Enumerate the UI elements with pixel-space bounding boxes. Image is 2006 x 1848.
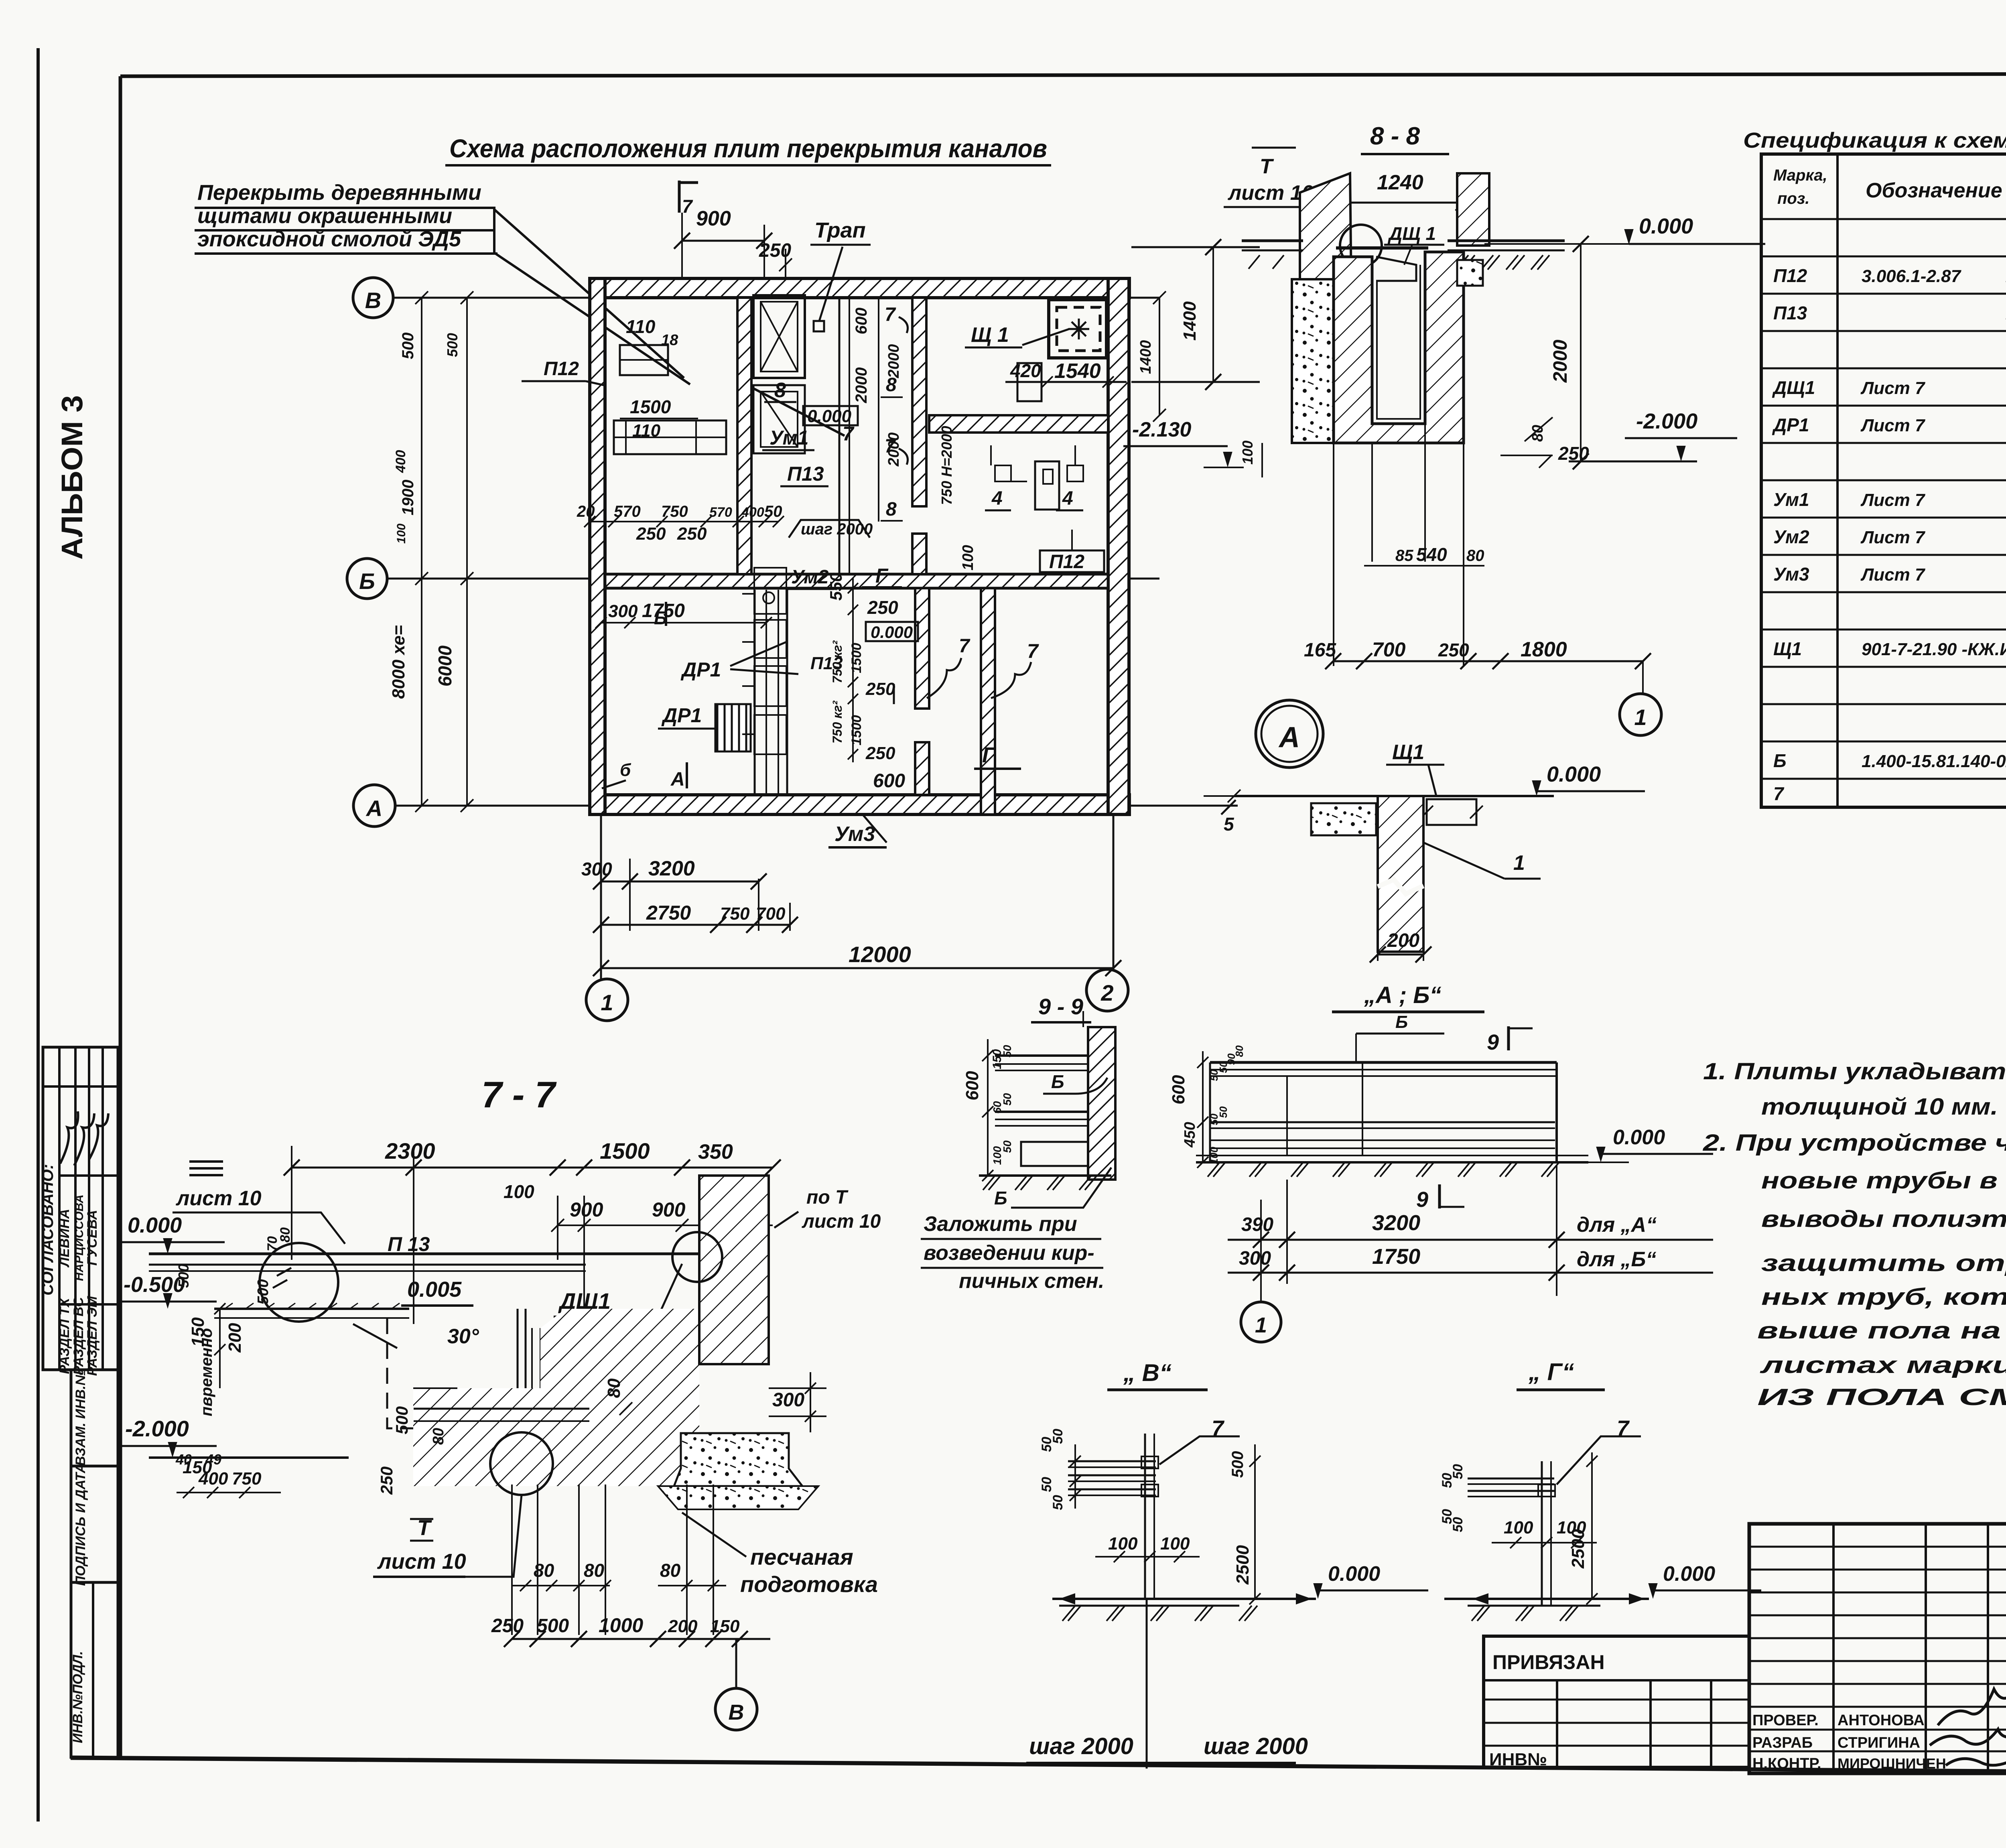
- section 7-7 axis B circle: [735, 1639, 737, 1688]
- svg-text:б: б: [620, 760, 631, 780]
- svg-text:СОГЛАСОВАНО:: СОГЛАСОВАНО:: [39, 1164, 57, 1296]
- svg-text:РАЗРАБ: РАЗРАБ: [1752, 1734, 1813, 1751]
- plan grating ДР1: [715, 704, 751, 751]
- spec table grid: [1761, 154, 2006, 807]
- svg-text:8: 8: [774, 379, 786, 402]
- svg-text:для „Б“: для „Б“: [1577, 1248, 1656, 1271]
- section 8-8 concrete column: [1292, 279, 1334, 443]
- svg-text:80: 80: [1466, 547, 1484, 565]
- axis Б circle: [347, 558, 387, 599]
- svg-text:9: 9: [1416, 1188, 1428, 1212]
- svg-text:А: А: [365, 796, 382, 821]
- sidebar box ПОДПИСЬ И ДАТА: [71, 1466, 118, 1582]
- detail 9-9 wall: [1088, 1027, 1115, 1180]
- svg-text:7: 7: [885, 304, 896, 325]
- svg-text:Б: Б: [1051, 1071, 1064, 1092]
- svg-text:40: 40: [175, 1451, 192, 1468]
- svg-text:РАЗДЕЛ ВС: РАЗДЕЛ ВС: [71, 1297, 86, 1375]
- svg-text:7 - 7: 7 - 7: [481, 1074, 557, 1115]
- svg-text:750: 750: [720, 904, 750, 924]
- svg-text:400: 400: [741, 505, 764, 520]
- svg-text:шаг 2000: шаг 2000: [1029, 1733, 1133, 1759]
- svg-text:12000: 12000: [849, 942, 911, 967]
- svg-text:150: 150: [710, 1616, 740, 1636]
- svg-text:250: 250: [865, 679, 895, 699]
- svg-text:2500: 2500: [1233, 1545, 1253, 1585]
- svg-text:Лист 7: Лист 7: [1860, 565, 1926, 585]
- detail AB ground: [1196, 1161, 1588, 1164]
- plan inner wall 3: [915, 588, 929, 709]
- svg-text:Б: Б: [994, 1188, 1007, 1208]
- svg-text:для „А“: для „А“: [1577, 1213, 1657, 1237]
- plan inner wall 1: [737, 298, 751, 574]
- plan left wall: [590, 278, 605, 814]
- svg-text:50: 50: [764, 503, 782, 520]
- axis А circle: [353, 785, 395, 827]
- plan top wall: [590, 278, 1129, 298]
- svg-text:1240: 1240: [1377, 171, 1423, 194]
- section 7-7 slab P13: [149, 1253, 715, 1255]
- svg-text:500: 500: [1229, 1451, 1247, 1478]
- section 8-8 left dim 1400: [1131, 246, 1260, 248]
- detail 9-9 slab mid: [995, 1111, 1088, 1113]
- svg-text:8000 хе=: 8000 хе=: [389, 625, 408, 699]
- section 8-8 axis 1 circle: [1620, 694, 1661, 735]
- svg-text:щитами окрашенными: щитами окрашенными: [197, 204, 452, 228]
- svg-text:Перекрыть деревянными: Перекрыть деревянными: [197, 181, 481, 205]
- section 8-8 panel on channel: [1336, 246, 1428, 250]
- svg-text:7: 7: [1773, 783, 1785, 804]
- svg-text:1: 1: [1513, 851, 1525, 875]
- svg-text:2500: 2500: [1568, 1529, 1588, 1569]
- svg-text:Б: Б: [1395, 1012, 1408, 1032]
- svg-text:1: 1: [601, 990, 613, 1015]
- svg-text:700: 700: [756, 904, 786, 924]
- axis 1 line: [600, 814, 602, 979]
- svg-text:100: 100: [1160, 1534, 1190, 1554]
- svg-text:Обозначение: Обозначение: [1866, 179, 2002, 202]
- detail AB slab mid: [1210, 1121, 1555, 1123]
- svg-text:750 Н=2000: 750 Н=2000: [938, 426, 955, 505]
- svg-text:500: 500: [537, 1615, 569, 1637]
- plan label shag2000: [789, 520, 870, 538]
- detail G ground: [1444, 1598, 1649, 1600]
- svg-text:новые трубы в подготовке пола: новые трубы в подготовке пола низ на отм…: [1761, 1168, 2006, 1194]
- plan right room fixtures: [1017, 363, 1042, 401]
- svg-text:ДЩ 1: ДЩ 1: [1387, 223, 1436, 244]
- section 8-8 right pier: [1457, 173, 1489, 246]
- svg-text:П12: П12: [1773, 265, 1807, 286]
- section 8-8 floor slab left: [1242, 240, 1303, 242]
- section 8-8 right pier base: [1457, 260, 1483, 286]
- svg-text:80: 80: [430, 1428, 447, 1445]
- svg-text:В: В: [365, 288, 381, 313]
- svg-text:защитить отрезками тонкостенны: защитить отрезками тонкостенных сталь-: [1761, 1250, 2006, 1276]
- svg-text:Г: Г: [982, 743, 997, 767]
- svg-text:250: 250: [1438, 640, 1469, 660]
- svg-text:50: 50: [1450, 1517, 1466, 1532]
- svg-text:80: 80: [604, 1378, 624, 1398]
- svg-text:500: 500: [444, 333, 461, 357]
- svg-text:100: 100: [1239, 441, 1256, 465]
- svg-text:2: 2: [1100, 980, 1113, 1005]
- section 7-7 sand prep wedge: [658, 1486, 818, 1509]
- detail AB ext lines: [1260, 1200, 1262, 1302]
- svg-text:1: 1: [1255, 1313, 1267, 1337]
- svg-text:Щ1: Щ1: [1392, 741, 1424, 764]
- svg-text:250: 250: [759, 240, 791, 261]
- svg-text:110: 110: [626, 316, 656, 337]
- plan inner wall 3b: [915, 742, 929, 795]
- svg-text:600: 600: [853, 308, 870, 335]
- svg-text:Т: Т: [1260, 155, 1274, 178]
- svg-text:49: 49: [205, 1451, 221, 1468]
- svg-text:1500: 1500: [849, 715, 864, 745]
- section 8-8 ground hatch right: [1456, 255, 1468, 270]
- section 8-8 ground hatch left: [1249, 255, 1260, 269]
- svg-text:0.000: 0.000: [1613, 1126, 1665, 1149]
- svg-text:Ум1: Ум1: [1773, 489, 1809, 510]
- svg-text:100: 100: [1504, 1518, 1533, 1537]
- svg-text:3200: 3200: [648, 857, 695, 880]
- svg-text:2000: 2000: [853, 368, 870, 404]
- plan right wing partition wall: [929, 415, 1108, 433]
- svg-text:ГУСЕВА: ГУСЕВА: [85, 1210, 100, 1266]
- sidebar box ИНВ ПОДЛ: [71, 1582, 118, 1757]
- section 7-7 concrete mass hatched: [413, 1309, 699, 1486]
- svg-text:Марка,: Марка,: [1773, 167, 1827, 184]
- svg-text:4: 4: [1062, 488, 1073, 509]
- svg-text:500: 500: [392, 1406, 411, 1434]
- svg-text:Щ1: Щ1: [1773, 638, 1802, 659]
- detail AB vertical joints: [1286, 1076, 1288, 1156]
- svg-text:100: 100: [395, 524, 408, 544]
- svg-text:АНТОНОВА: АНТОНОВА: [1837, 1712, 1925, 1729]
- svg-text:1540: 1540: [1054, 359, 1101, 383]
- svg-text:АЛЬБОМ 3: АЛЬБОМ 3: [55, 395, 89, 560]
- plan section flag 7 top: [678, 181, 681, 213]
- svg-text:0.000: 0.000: [1663, 1562, 1715, 1586]
- svg-text:1500: 1500: [600, 1138, 650, 1164]
- svg-text:750 кг²: 750 кг²: [830, 701, 845, 744]
- plan shower cubicle: [753, 295, 805, 378]
- svg-text:400: 400: [198, 1469, 228, 1489]
- plan label П12 bottom-right: [1040, 550, 1104, 572]
- svg-text:шаг 2000: шаг 2000: [1204, 1733, 1308, 1759]
- svg-text:Лист 7: Лист 7: [1860, 490, 1926, 510]
- svg-text:80: 80: [534, 1560, 554, 1581]
- svg-text:Схема расположения плит перекр: Схема расположения плит перекрытия канал…: [449, 134, 1047, 163]
- svg-text:1800: 1800: [1521, 638, 1567, 661]
- svg-text:Б: Б: [1773, 750, 1787, 771]
- svg-text:1000: 1000: [599, 1614, 643, 1637]
- svg-text:900: 900: [570, 1198, 603, 1221]
- svg-text:300: 300: [772, 1389, 804, 1411]
- svg-text:50: 50: [1450, 1464, 1466, 1479]
- svg-text:1500: 1500: [630, 396, 671, 417]
- svg-text:ВЗАМ. ИНВ.№: ВЗАМ. ИНВ.№: [73, 1370, 88, 1466]
- svg-text:900: 900: [652, 1198, 686, 1221]
- svg-text:200: 200: [225, 1323, 245, 1353]
- svg-text:Б: Б: [359, 569, 375, 594]
- svg-text:Заложить при: Заложить при: [924, 1212, 1077, 1236]
- svg-text:18: 18: [661, 332, 678, 349]
- svg-text:Спецификация к схеме расположе: Спецификация к схеме расположения плит п…: [1743, 128, 2006, 152]
- svg-text:Щ 1: Щ 1: [971, 323, 1009, 347]
- svg-text:1. Плиты укладывать на цементн: 1. Плиты укладывать на цементно- песчаны…: [1703, 1058, 2006, 1084]
- svg-text:8 - 8: 8 - 8: [1370, 122, 1420, 150]
- svg-text:Ум2: Ум2: [1773, 526, 1809, 547]
- plan left dim line a: [421, 298, 422, 806]
- svg-text:7: 7: [682, 196, 693, 217]
- section 7-7 slab lower: [214, 1308, 409, 1310]
- plan right wall: [1108, 278, 1129, 814]
- section 8-8 right dim vertical: [1580, 244, 1582, 461]
- plan left dim line b: [466, 298, 468, 806]
- plan trench vertical: [754, 590, 756, 795]
- detail AB axis 1 circle: [1241, 1302, 1281, 1342]
- svg-text:1900: 1900: [399, 480, 417, 516]
- sidebar box ВЗАМ ИНВ: [71, 1370, 118, 1466]
- svg-text:50: 50: [1050, 1429, 1066, 1444]
- svg-text:пвременно: пвременно: [198, 1328, 215, 1416]
- svg-text:эпоксидной смолой ЭД5: эпоксидной смолой ЭД5: [197, 227, 461, 251]
- node A panel right: [1427, 799, 1476, 825]
- plan inner wall 2 lower: [912, 534, 926, 574]
- svg-text:Лист 7: Лист 7: [1860, 528, 1926, 547]
- svg-text:ИНВ.№ПОДЛ.: ИНВ.№ПОДЛ.: [70, 1651, 85, 1743]
- node A wall below: [1378, 796, 1423, 952]
- svg-text:900: 900: [696, 207, 731, 230]
- svg-text:0.000: 0.000: [1328, 1562, 1380, 1586]
- svg-text:1400: 1400: [1180, 301, 1200, 341]
- svg-text:1: 1: [1634, 705, 1647, 730]
- svg-text:540: 540: [1416, 544, 1447, 565]
- svg-text:П13: П13: [787, 463, 824, 485]
- svg-text:П13: П13: [1773, 303, 1807, 323]
- svg-text:1400: 1400: [1137, 340, 1154, 374]
- svg-text:250: 250: [677, 524, 707, 544]
- detail 9-9 ground: [979, 1174, 1111, 1177]
- svg-text:шаг 2000: шаг 2000: [801, 520, 873, 538]
- svg-text:80: 80: [660, 1560, 681, 1581]
- plan electrical panel box: [1049, 300, 1107, 358]
- svg-text:выше пола на 200 мм. Трубы учт: выше пола на 200 мм. Трубы учтены на: [1757, 1318, 2006, 1344]
- svg-text:750: 750: [232, 1469, 262, 1489]
- detail 9-9 top ticks: [1082, 1011, 1084, 1027]
- svg-text:350: 350: [698, 1140, 733, 1164]
- svg-text:50: 50: [1039, 1477, 1054, 1492]
- svg-text:250: 250: [636, 524, 666, 544]
- signatures: [1938, 1689, 2006, 1725]
- svg-text:Ум1: Ум1: [770, 426, 808, 449]
- svg-text:1500: 1500: [849, 643, 864, 673]
- svg-text:110: 110: [632, 421, 661, 441]
- svg-text:„А ; Б“: „А ; Б“: [1364, 982, 1442, 1008]
- svg-text:„ Г“: „ Г“: [1528, 1359, 1574, 1385]
- svg-text:570: 570: [709, 505, 732, 520]
- svg-text:5: 5: [1224, 814, 1234, 835]
- svg-text:„ В“: „ В“: [1123, 1359, 1172, 1386]
- svg-text:80: 80: [278, 1227, 293, 1243]
- svg-text:ных труб, которые должны быть: ных труб, которые должны быть выведены: [1761, 1284, 2006, 1310]
- svg-text:лист 10: лист 10: [802, 1211, 881, 1232]
- svg-text:2000: 2000: [1550, 339, 1571, 383]
- svg-text:7: 7: [959, 636, 971, 657]
- svg-text:2000: 2000: [885, 433, 902, 467]
- svg-text:80: 80: [584, 1560, 605, 1581]
- svg-text:200: 200: [1387, 930, 1419, 951]
- svg-text:поз.: поз.: [1777, 190, 1809, 207]
- svg-text:ПОДПИСЬ И ДАТА: ПОДПИСЬ И ДАТА: [73, 1463, 88, 1586]
- svg-text:50: 50: [1001, 1093, 1013, 1106]
- svg-text:0.005: 0.005: [407, 1277, 462, 1302]
- svg-text:20: 20: [577, 503, 595, 520]
- svg-text:ПРИВЯЗАН: ПРИВЯЗАН: [1492, 1651, 1605, 1673]
- plan bottom ext lines: [758, 879, 759, 931]
- svg-text:пичных стен.: пичных стен.: [959, 1269, 1104, 1293]
- svg-text:СТРИГИНА: СТРИГИНА: [1837, 1734, 1920, 1751]
- svg-text:30°: 30°: [447, 1325, 479, 1348]
- svg-text:80: 80: [1233, 1045, 1245, 1057]
- axis В circle: [353, 278, 393, 318]
- svg-text:0.000: 0.000: [1547, 762, 1601, 786]
- svg-text:500: 500: [175, 1264, 192, 1288]
- svg-text:0.000: 0.000: [871, 623, 913, 642]
- svg-text:П 13: П 13: [388, 1233, 430, 1255]
- svg-text:600: 600: [962, 1071, 982, 1101]
- privyazan table box: [1484, 1636, 1749, 1767]
- svg-text:750 кг²: 750 кг²: [830, 640, 845, 684]
- plan cabinet upper-left: [620, 345, 668, 375]
- svg-text:П12: П12: [1049, 551, 1084, 573]
- annotation leaders: [494, 209, 684, 378]
- axis В line: [393, 297, 1159, 299]
- svg-text:100: 100: [960, 545, 977, 570]
- svg-text:ИЗ ПОЛА СМ. ЛИСТ 4.: ИЗ ПОЛА СМ. ЛИСТ 4.: [1757, 1384, 2006, 1410]
- plan shower lower box: [753, 385, 805, 453]
- plan middle wall on axis Б: [605, 574, 1108, 588]
- plan trench upper-left: [614, 420, 726, 454]
- section 7-7 right wall footing: [674, 1433, 802, 1486]
- svg-text:ИНВ№: ИНВ№: [1489, 1750, 1547, 1769]
- svg-text:500: 500: [399, 333, 417, 359]
- svg-text:Ум2: Ум2: [791, 567, 829, 588]
- axis Б line: [387, 578, 1159, 580]
- section 8-8 channel inner line: [1377, 265, 1420, 419]
- section 7-7 channel walls: [518, 1309, 526, 1450]
- svg-text:лист 10: лист 10: [377, 1549, 466, 1574]
- detail AB slab low: [1210, 1147, 1555, 1149]
- plan boxed elev 0.000: [803, 406, 858, 425]
- svg-text:Ум3: Ум3: [834, 822, 875, 846]
- detail V arrows on ground: [1059, 1593, 1075, 1604]
- svg-text:-2.000: -2.000: [125, 1416, 189, 1441]
- svg-text:ДР1: ДР1: [1772, 414, 1809, 435]
- svg-text:3200: 3200: [1372, 1211, 1420, 1235]
- axis 1 circle: [586, 979, 628, 1021]
- section 8-8 channel U: [1334, 252, 1464, 443]
- svg-text:Ум3: Ум3: [1773, 564, 1809, 585]
- svg-text:2300: 2300: [385, 1138, 435, 1164]
- annotation bracket: [195, 208, 494, 254]
- section 7-7 ledge lines: [414, 1408, 589, 1410]
- svg-text:толщиной 10 мм.: толщиной 10 мм.: [1761, 1094, 1998, 1120]
- title block outer: [1749, 1524, 2006, 1773]
- svg-text:300: 300: [1239, 1248, 1271, 1269]
- svg-text:500: 500: [255, 1279, 272, 1304]
- plan inner wall 2 upper: [912, 298, 926, 506]
- svg-text:возведении кир-: возведении кир-: [924, 1241, 1094, 1265]
- svg-text:1750: 1750: [1372, 1245, 1420, 1269]
- svg-text:2750: 2750: [646, 902, 691, 924]
- svg-text:-2.130: -2.130: [1132, 418, 1192, 441]
- section 8-8 node circle: [1340, 225, 1382, 266]
- plan duct lines mid room: [839, 298, 841, 574]
- svg-text:П12: П12: [544, 358, 579, 380]
- svg-text:80: 80: [1529, 425, 1546, 442]
- svg-text:250: 250: [1558, 443, 1589, 464]
- svg-text:ПРОВЕР.: ПРОВЕР.: [1752, 1712, 1819, 1729]
- detail AB slab top: [1210, 1061, 1557, 1064]
- detail 9-9 base: [1021, 1142, 1088, 1166]
- svg-text:50: 50: [1050, 1495, 1066, 1510]
- section 7-7 lower floor line: [149, 1456, 349, 1459]
- detail V pipes: [1068, 1460, 1156, 1462]
- detail G pipe vertical: [1541, 1461, 1543, 1606]
- svg-text:6000: 6000: [434, 645, 455, 686]
- svg-text:ДР1: ДР1: [661, 704, 702, 727]
- svg-text:Трап: Трап: [814, 218, 866, 242]
- svg-text:песчаная: песчаная: [750, 1544, 853, 1570]
- svg-text:Лист 7: Лист 7: [1860, 378, 1926, 398]
- section 7-7 detail circle low: [490, 1432, 553, 1495]
- svg-text:ДР1: ДР1: [680, 658, 721, 681]
- plan boxed elev 0.000 lower: [866, 622, 918, 641]
- section 8-8 lower ext lines: [1333, 443, 1334, 666]
- svg-text:4: 4: [991, 488, 1003, 509]
- svg-text:250: 250: [377, 1466, 396, 1495]
- svg-text:лист 10: лист 10: [175, 1187, 262, 1210]
- section 7-7 right wall: [699, 1176, 769, 1364]
- svg-text:50: 50: [1001, 1045, 1013, 1058]
- title block left grid verticals: [1832, 1524, 1835, 1773]
- svg-text:600: 600: [1169, 1075, 1188, 1105]
- svg-text:250: 250: [867, 597, 898, 618]
- svg-text:550: 550: [826, 573, 845, 601]
- svg-text:выводы полиэтиленовых труб из: выводы полиэтиленовых труб из подливок п…: [1761, 1206, 2006, 1232]
- svg-text:МИРОШНИЧЕН: МИРОШНИЧЕН: [1837, 1755, 1946, 1772]
- axis 2 line: [1113, 814, 1115, 969]
- svg-text:3.006.1-2.87: 3.006.1-2.87: [1862, 266, 1962, 286]
- svg-text:ЛЕВИНА: ЛЕВИНА: [57, 1209, 72, 1268]
- svg-text:165: 165: [1304, 640, 1336, 661]
- svg-text:2000: 2000: [885, 344, 902, 379]
- svg-text:100: 100: [1108, 1534, 1138, 1554]
- svg-text:450: 450: [1182, 1122, 1198, 1147]
- svg-text:подготовка: подготовка: [740, 1572, 878, 1597]
- node A floor line: [1234, 795, 1554, 797]
- section 7-7 bottom ext lines: [511, 1484, 513, 1635]
- section 8-8 floor slab right: [1448, 240, 1565, 242]
- svg-text:100: 100: [1208, 1147, 1220, 1164]
- svg-text:8: 8: [886, 499, 897, 520]
- detail V ground: [1052, 1598, 1316, 1600]
- svg-text:-2.000: -2.000: [1636, 409, 1697, 433]
- node A slab speckled: [1311, 803, 1376, 835]
- svg-text:7: 7: [1027, 640, 1039, 662]
- svg-text:В: В: [729, 1700, 744, 1724]
